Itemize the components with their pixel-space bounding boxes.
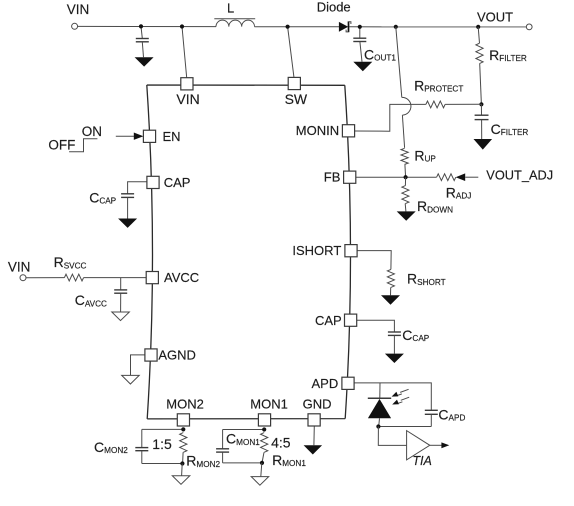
svg-text:MONIN: MONIN [296, 123, 339, 138]
ground CFILTER [474, 139, 493, 150]
pin VIN [176, 78, 199, 108]
svg-text:ON: ON [82, 124, 102, 139]
svg-text:FB: FB [324, 170, 341, 185]
wire inductor to diode [255, 26, 340, 28]
ground CCAP right [385, 354, 404, 363]
capacitor input bypass [136, 26, 149, 57]
wire CAPD bottom to photodiode [378, 426, 431, 428]
svg-text:EN: EN [163, 129, 181, 144]
capacitor CCAP left [89, 190, 134, 219]
node junction input cap [139, 24, 143, 28]
resistor RADJ [437, 174, 472, 201]
resistor RSHORT [387, 269, 445, 295]
resistor RFILTER [476, 27, 527, 104]
light arrows into photodiode [392, 389, 410, 404]
ground MON2 open [172, 476, 190, 485]
capacitor CFILTER [475, 104, 529, 139]
inductor L [214, 1, 255, 27]
svg-text:4:5: 4:5 [271, 435, 291, 451]
pin AGND [145, 348, 196, 363]
svg-text:AVCC: AVCC [164, 270, 199, 285]
wire RPROTECT to CFILTER node [445, 103, 481, 105]
capacitor CAVCC [75, 278, 128, 312]
capacitor CMON2 [94, 439, 148, 464]
node junction MON1 [262, 427, 266, 431]
node junction VOUT branch [394, 25, 398, 29]
wire CAP pin right to CCAP [357, 320, 395, 332]
capacitor COUT1 [353, 27, 396, 63]
pin APD [312, 376, 355, 391]
pin CAP left [147, 175, 191, 190]
wire RSVCC to AVCC pin [84, 277, 147, 279]
ground CCAP left [118, 219, 137, 228]
ground RDOWN [397, 211, 416, 220]
svg-text:SW: SW [285, 91, 308, 107]
svg-text:OFF: OFF [48, 138, 75, 153]
wire hop to RUP [402, 115, 404, 148]
resistor RDOWN [402, 177, 453, 214]
svg-text:ISHORT: ISHORT [292, 243, 341, 258]
resistor RMON2 [180, 433, 221, 469]
wire photodiode to TIA [378, 427, 406, 446]
svg-text:GND: GND [303, 397, 332, 412]
node VIN terminal [67, 2, 90, 29]
pin FB [324, 170, 356, 185]
node junction MON2 bottom [180, 461, 184, 465]
pin AVCC [146, 270, 199, 285]
wire VIN rail to inductor [78, 25, 216, 27]
node junction SW [286, 25, 290, 29]
wire SW pin riser [288, 27, 295, 80]
svg-text:CAP: CAP [315, 313, 342, 328]
wire MON1 branch top [223, 430, 265, 449]
node junction MON1 bottom [260, 461, 264, 465]
svg-text:Diode: Diode [317, 0, 351, 15]
resistor RPROTECT [414, 77, 463, 108]
wire VIN to RSVCC [26, 277, 64, 279]
svg-text:AGND: AGND [158, 348, 196, 363]
pin CAP right [315, 313, 357, 328]
svg-text:MON2: MON2 [166, 397, 204, 412]
ground MON1 open [251, 477, 269, 486]
svg-text:VIN: VIN [67, 2, 90, 17]
capacitor CMON1 [216, 431, 260, 463]
wire MON1 branch bottom [223, 462, 262, 464]
ground RSHORT [381, 295, 400, 304]
op-amp TIA [407, 431, 450, 469]
ground CAVCC open [112, 312, 130, 321]
diode D1 schottky [317, 0, 351, 32]
pin EN [143, 129, 180, 144]
node junction CFILTER [479, 102, 483, 106]
svg-text:APD: APD [312, 376, 339, 391]
capacitor CCAP right [388, 327, 430, 354]
wire AGND to ground [131, 355, 146, 376]
wire VOUT_ADJ input arrow [456, 168, 554, 183]
wire APD net top [354, 383, 431, 410]
svg-text:VOUT: VOUT [477, 9, 513, 24]
ground COUT1 [353, 62, 372, 71]
node junction RFILTER top [476, 25, 480, 29]
photodiode APD [368, 383, 391, 427]
resistor RSVCC [54, 254, 87, 281]
wire MON2 branch bottom [142, 463, 183, 465]
pin ISHORT [292, 243, 357, 258]
wire CAP pin left to CCAP [128, 182, 148, 194]
wire MON2 branch top [142, 429, 184, 447]
ground input bypass [135, 57, 154, 66]
svg-text:CAP: CAP [164, 175, 191, 190]
wire MON1 ground stub [261, 463, 262, 477]
pin MONIN [296, 123, 355, 138]
pin MON1 [250, 397, 288, 426]
svg-text:VIN: VIN [8, 260, 31, 275]
op-amp chip outline [147, 85, 351, 419]
wire arrow into EN [116, 133, 144, 140]
node junction VIN pin [180, 24, 184, 28]
pin MON2 [166, 397, 204, 426]
node junction photodiode anode [376, 424, 380, 428]
node junction FB divider [404, 175, 408, 179]
svg-text:VOUT_ADJ: VOUT_ADJ [486, 168, 553, 183]
ground AGND open [122, 375, 140, 384]
node junction COUT1 [358, 25, 362, 29]
resistor RUP [401, 147, 436, 177]
wire MON2 ground stub [181, 464, 184, 476]
wire VIN pin riser [182, 27, 187, 81]
wire GND pin stub [313, 426, 315, 445]
svg-text:L: L [227, 1, 234, 16]
wire EN step input [48, 124, 102, 153]
node junction MON2 [181, 427, 185, 431]
node VIN AVCC terminal [8, 260, 31, 281]
svg-text:VIN: VIN [176, 91, 199, 107]
svg-text:1:5: 1:5 [152, 436, 172, 452]
svg-text:TIA: TIA [412, 454, 431, 468]
capacitor CAPD [425, 406, 466, 426]
pin SW [285, 77, 308, 107]
node VOUT terminal [477, 9, 532, 29]
ground GND filled [304, 445, 323, 454]
wire diode to VOUT [349, 26, 526, 28]
wire FB net [356, 176, 437, 178]
wire MONIN to RPROTECT [355, 104, 426, 131]
wire hop over RPROTECT net [402, 97, 411, 115]
resistor RMON1 [261, 433, 307, 469]
pin GND [303, 397, 332, 426]
svg-text:MON1: MON1 [250, 397, 288, 412]
wire ISHORT to RSHORT [357, 251, 391, 270]
wire VOUT to hop [396, 27, 402, 98]
